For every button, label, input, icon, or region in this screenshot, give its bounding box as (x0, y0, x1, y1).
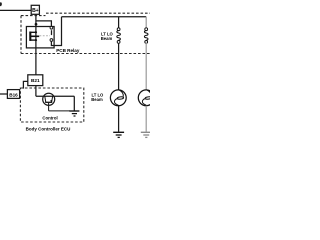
relay coil (29, 32, 31, 41)
wire: lamp 1 to ground (118, 106, 120, 132)
wire: B21 to transistor collector (36, 86, 74, 111)
node: junction dot (35, 23, 38, 26)
wire: drop to circuit breaker 1 (118, 17, 120, 28)
wire: branch to relay contact (36, 21, 52, 27)
wire: relay contact output down-right-up (51, 17, 61, 46)
dashed enclosure: fuse block top edge (46, 12, 150, 14)
relay contact: bottom terminal (50, 39, 53, 42)
dashed enclosure: Body Controller ECU (20, 88, 83, 122)
wire: feed bus to breakers (62, 16, 147, 18)
svg-text:Control: Control (42, 115, 57, 120)
wire: breaker 2 to lamp 2 (grey) (145, 43, 147, 90)
lamp LT LO Beam 1 (110, 90, 126, 106)
relay contact: top terminal (50, 26, 53, 29)
wire: B21 leader into ECU (23, 81, 28, 88)
svg-text:B+: B+ (32, 8, 38, 14)
wire: drop to circuit breaker 2 (grey circuit) (145, 17, 147, 28)
lamp LT LO Beam 2 (cut at edge) (138, 90, 154, 106)
ground G1 (113, 131, 124, 133)
ground: ECU internal (69, 110, 79, 112)
ground G2 (grey) (141, 131, 150, 133)
wire: emitter to ground (49, 103, 70, 111)
relay contact: blade (51, 30, 53, 35)
dashed enclosure: left edge (20, 16, 22, 54)
wire: breaker 1 to lamp 1 (118, 43, 120, 90)
connector B21 (28, 75, 43, 86)
svg-text:Beam: Beam (91, 97, 103, 102)
connector B16 (0, 93, 7, 95)
svg-text:PCB Relay: PCB Relay (56, 48, 80, 53)
circuit breaker CB1 (117, 28, 120, 31)
node: cut-off connector glyph at left edge (0, 2, 2, 6)
mechanical link (dashed grey) (40, 35, 51, 37)
connector B+ (31, 5, 39, 14)
wire: lamp 2 to ground (grey) (145, 106, 147, 132)
svg-text:Body Controller ECU: Body Controller ECU (26, 126, 71, 131)
circuit breaker CB2 (145, 28, 148, 31)
dashed enclosure: relay box top-left (21, 15, 46, 17)
svg-text:B21: B21 (31, 78, 40, 83)
svg-text:Beam: Beam (101, 36, 113, 41)
wire: battery feed from left edge (0, 9, 31, 11)
dashed enclosure: bottom edge (21, 53, 150, 55)
relay U1: inner outline (26, 27, 54, 48)
transistor Q1 (43, 93, 55, 105)
wire: B+ down to relay coil and B21 (35, 14, 37, 75)
svg-text:B16: B16 (9, 92, 18, 97)
